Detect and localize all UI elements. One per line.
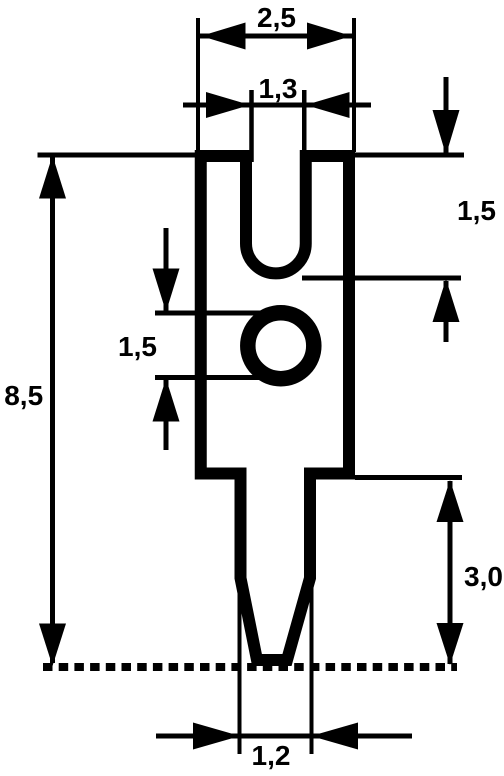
baseline (dashed datum) bbox=[43, 663, 457, 671]
dimension 2,5: right extension line bbox=[352, 18, 356, 152]
dimension 1,5 hole: top extension line bbox=[155, 311, 266, 316]
dimension 3,0: dimension line bbox=[448, 481, 453, 664]
dimension 2,5: left arrow bbox=[201, 23, 246, 50]
dimension 1,2: right arrow bbox=[311, 723, 358, 750]
dimension 1,3: right arrow bbox=[306, 92, 350, 118]
dimension 1,5 slot depth: bottom extension line bbox=[302, 276, 461, 281]
dimension 1,5 slot depth: upper dimension line bbox=[444, 77, 449, 153]
svg-text:1,3: 1,3 bbox=[259, 73, 298, 104]
dimension 8,5: up arrow bbox=[39, 156, 66, 199]
svg-text:1,5: 1,5 bbox=[118, 331, 157, 362]
svg-text:8,5: 8,5 bbox=[4, 380, 43, 411]
dimension 3,0: up arrow bbox=[437, 480, 464, 522]
dimension 1,5 slot depth: up arrow bbox=[433, 279, 460, 322]
dimension 1,3: left arrow bbox=[206, 92, 250, 118]
dimension 1,3: dimension line bbox=[183, 103, 371, 108]
dimension 8,5: down arrow bbox=[39, 624, 66, 667]
dimension 1,3: right extension line bbox=[302, 90, 307, 162]
dimension 1,5 hole: up arrow bbox=[153, 379, 180, 422]
dimension 1,5 hole: bottom extension line bbox=[155, 375, 266, 380]
dimension 1,5 slot depth: down arrow bbox=[433, 110, 460, 155]
dimension 1,2: left extension line bbox=[238, 580, 242, 754]
dimension 2,5: dimension line bbox=[200, 34, 352, 39]
svg-text:3,0: 3,0 bbox=[464, 561, 503, 592]
dimension 1,5 slot depth: top extension line bbox=[352, 153, 464, 158]
dimension 1,5 slot depth: lower dimension line bbox=[444, 281, 449, 342]
svg-text:1,5: 1,5 bbox=[457, 195, 496, 226]
dimension 8,5: dimension line bbox=[50, 157, 55, 663]
dimension 1,2: dimension line bbox=[156, 734, 412, 739]
dimension 2,5: right arrow bbox=[307, 23, 352, 50]
svg-text:1,2: 1,2 bbox=[252, 740, 291, 771]
terminal body outline bbox=[201, 156, 349, 660]
dimension 8,5: top extension line bbox=[38, 153, 201, 158]
svg-text:2,5: 2,5 bbox=[257, 2, 296, 33]
dimension 2,5: left extension line bbox=[196, 18, 200, 152]
hole bbox=[248, 313, 314, 379]
dimension 1,3: left extension line bbox=[249, 90, 254, 162]
dimension 1,2: left arrow bbox=[193, 723, 240, 750]
dimension 3,0: top extension line bbox=[355, 475, 462, 480]
dimension 1,5 hole: upper dimension line bbox=[164, 228, 169, 311]
dimension 3,0: down arrow bbox=[437, 623, 464, 665]
dimension 1,2: right extension line bbox=[310, 580, 314, 754]
dimension 1,5 hole: lower dimension line bbox=[164, 379, 169, 450]
dimension 1,5 hole: down arrow bbox=[153, 269, 180, 313]
